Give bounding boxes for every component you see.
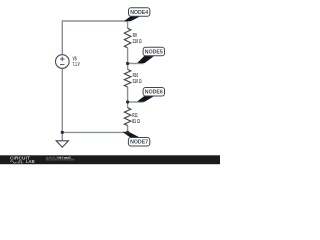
svg-text:LAB: LAB	[26, 159, 35, 164]
svg-text:210 Ω: 210 Ω	[133, 39, 142, 45]
junction node NODE6	[126, 100, 129, 103]
junction node NODE7	[126, 131, 129, 134]
svg-text:NODE5: NODE5	[145, 49, 163, 55]
wire right vertical R9 top lead	[127, 20, 129, 28]
junction ground node	[61, 131, 64, 134]
footer logo wave+LAB	[10, 161, 23, 163]
svg-text:81 Ω: 81 Ω	[132, 119, 140, 125]
wire left vertical lower	[61, 68, 63, 132]
resistor R9	[124, 28, 141, 48]
svg-text:510 Ω: 510 Ω	[133, 79, 142, 85]
wire ground stub	[61, 132, 63, 140]
svg-text:http://circuitlab.com/c49bn43j: http://circuitlab.com/c49bn43j63kfw	[46, 158, 75, 162]
svg-text:NODE6: NODE6	[145, 90, 163, 96]
node NODE6 flag	[137, 88, 164, 102]
wire right vertical between R10 and R11	[127, 87, 129, 108]
svg-text:7.1 V: 7.1 V	[73, 62, 81, 68]
voltage source V5	[56, 55, 81, 69]
node NODE4 flag	[124, 8, 150, 21]
ground	[56, 141, 68, 147]
wire bottom horizontal	[62, 131, 127, 133]
resistor R11	[124, 108, 140, 126]
junction node NODE5	[126, 62, 129, 65]
wire left vertical upper	[61, 20, 63, 55]
footer bar	[0, 155, 220, 164]
wire right vertical between R9 and R10	[127, 48, 129, 70]
wire right vertical R11 bottom lead	[127, 126, 129, 133]
wire top horizontal	[62, 20, 127, 22]
wire NODE6 stub	[128, 101, 144, 103]
svg-text:NODE7: NODE7	[130, 140, 148, 146]
node NODE7 flag	[122, 132, 149, 146]
wire NODE5 stub	[128, 63, 144, 65]
node NODE5 flag	[137, 47, 164, 63]
resistor R10	[124, 69, 141, 87]
svg-text:NODE4: NODE4	[130, 10, 149, 16]
